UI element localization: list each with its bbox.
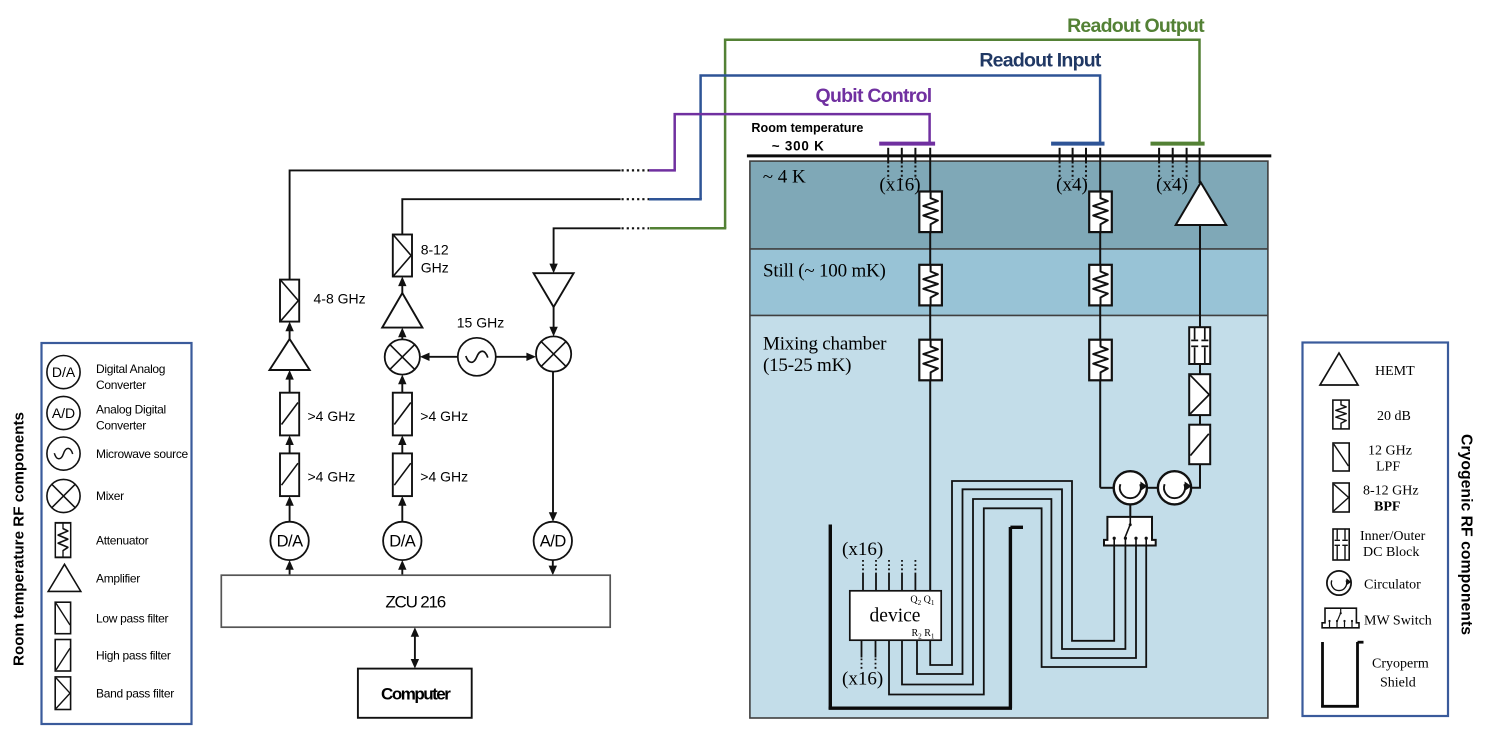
wire+arrow: mixer M1 to amplifier A2 xyxy=(398,328,406,340)
svg-text:Room temperature RF components: Room temperature RF components xyxy=(11,412,28,666)
svg-text:Converter: Converter xyxy=(96,419,146,433)
svg-text:12 GHz: 12 GHz xyxy=(1368,444,1412,459)
qubit feedthrough tick 1 xyxy=(887,148,889,180)
wire+arrow: ZCU to DAC2 xyxy=(398,560,406,575)
device input stub 4 xyxy=(901,560,903,591)
wire+arrow: FL2 to amplifier A1 xyxy=(285,370,293,393)
dashed joint qubit line xyxy=(622,169,650,171)
legend microwave source symbol xyxy=(47,437,80,470)
right legend box xyxy=(1303,343,1449,717)
legend low pass filter symbol xyxy=(55,602,70,634)
svg-text:Amplifier: Amplifier xyxy=(96,572,140,586)
svg-text:>4 GHz: >4 GHz xyxy=(308,408,356,424)
device input stub 5 (Q2) xyxy=(914,560,916,591)
svg-text:A/D: A/D xyxy=(52,405,75,421)
svg-text:LPF: LPF xyxy=(1376,460,1400,475)
Computer box xyxy=(358,669,472,718)
readout output feedthrough tick 2 xyxy=(1172,148,1174,180)
qubit control feedthrough bar xyxy=(879,142,935,146)
readout meander wire C (to switch pin 3) xyxy=(902,499,1136,685)
device input stub 1 xyxy=(862,560,864,591)
wire: LPF down and left to circulator C2 xyxy=(1191,464,1200,488)
readout meander wire D (to switch pin 4) xyxy=(889,508,1146,694)
cryostat 4 K band xyxy=(750,161,1268,249)
svg-text:8-12: 8-12 xyxy=(421,242,449,258)
MW switch S1 xyxy=(1104,517,1156,546)
svg-text:Digital Analog: Digital Analog xyxy=(96,362,165,376)
svg-text:(x16): (x16) xyxy=(879,174,920,195)
svg-text:>4 GHz: >4 GHz xyxy=(420,469,468,485)
inner/outer DC block DB1 xyxy=(1189,327,1210,364)
boundary line Still / Mixing chamber xyxy=(750,314,1268,316)
svg-text:High pass filter: High pass filter xyxy=(96,649,171,663)
qubit feedthrough tick 2 xyxy=(901,148,903,180)
band pass filter FL1 4-8 GHz xyxy=(280,280,299,322)
wire+arrow: A3 to mixer M2 xyxy=(549,307,557,336)
svg-text:4-8 GHz: 4-8 GHz xyxy=(314,291,366,307)
wire: HEMT to DC block xyxy=(1199,225,1201,327)
legend amplifier symbol xyxy=(48,564,81,591)
left legend box xyxy=(42,343,192,724)
amplifier A2 xyxy=(382,293,422,328)
svg-text:D/A: D/A xyxy=(277,533,304,551)
microwave source OSC1 xyxy=(458,338,496,376)
wire+arrow: ADC down to ZCU xyxy=(549,560,557,575)
readout input feedthrough tick 1 xyxy=(1059,148,1061,180)
svg-text:Shield: Shield xyxy=(1380,676,1416,691)
legend MW switch symbol xyxy=(1322,608,1359,628)
wire: readout-out chain room-temp black segment xyxy=(554,228,621,268)
wire+arrow: DAC1 to FL3 xyxy=(285,496,293,522)
cryoperm shield around device xyxy=(829,525,1023,710)
attenuator AT3 qubit mixing chamber xyxy=(919,340,942,381)
ZCU 216 box xyxy=(221,575,610,627)
wire: readout input blue stub xyxy=(649,198,702,201)
svg-text:MW Switch: MW Switch xyxy=(1364,614,1432,629)
device input stub 2 xyxy=(875,560,877,591)
svg-text:8-12 GHz: 8-12 GHz xyxy=(1363,484,1419,499)
room temperature boundary line ~300K xyxy=(747,154,1271,157)
svg-text:Readout Output: Readout Output xyxy=(1067,15,1205,37)
svg-text:(x16): (x16) xyxy=(842,539,883,560)
legend HEMT symbol xyxy=(1320,353,1358,385)
dashed joint readout-out line xyxy=(622,227,650,229)
svg-text:15 GHz: 15 GHz xyxy=(457,315,504,331)
svg-text:Cryogenic RF components: Cryogenic RF components xyxy=(1458,434,1475,635)
circulator C2 xyxy=(1158,471,1192,504)
legend DAC symbol xyxy=(47,356,80,389)
amplifier A3 (pointing down) xyxy=(534,273,574,307)
legend ADC symbol xyxy=(47,396,80,429)
wire+arrow: FL8 to FL7 xyxy=(398,435,406,453)
svg-text:Microwave source: Microwave source xyxy=(96,447,189,461)
svg-text:Attenuator: Attenuator xyxy=(96,534,149,548)
attenuator AT1 qubit 4K xyxy=(919,192,942,233)
wire+arrow: DAC2 to FL8 xyxy=(398,496,406,522)
svg-text:(x16): (x16) xyxy=(842,669,883,690)
wire: readout input to circulator C1 xyxy=(1100,487,1114,489)
device input stub 3 xyxy=(888,560,890,591)
readout output feedthrough bar xyxy=(1151,142,1205,146)
high pass filter FL8 >4 GHz xyxy=(393,453,412,496)
svg-text:Low pass filter: Low pass filter xyxy=(96,611,169,625)
wire+arrow: down into amplifier A3 xyxy=(549,264,557,274)
wire: DC block to BPF xyxy=(1199,364,1201,374)
wire: qubit control purple trunk xyxy=(675,114,930,170)
attenuator AT4 readout-in 4K xyxy=(1089,192,1112,233)
svg-text:Room temperature: Room temperature xyxy=(751,121,863,135)
svg-text:Still (~ 100 mK): Still (~ 100 mK) xyxy=(763,260,886,281)
svg-text:ZCU 216: ZCU 216 xyxy=(385,592,445,611)
band pass filter FL5 8-12 GHz cryo xyxy=(1189,374,1210,415)
svg-text:Mixing chamber: Mixing chamber xyxy=(763,334,887,355)
svg-text:Cryoperm: Cryoperm xyxy=(1372,657,1429,672)
wire+arrow: mixer M1 from FL7 xyxy=(398,375,406,393)
svg-text:A/D: A/D xyxy=(540,533,567,551)
DAC U4 D/A circle (middle) xyxy=(383,522,421,560)
cryostat still band (~100 mK) xyxy=(750,249,1268,316)
wire+arrow: ZCU to DAC1 xyxy=(285,560,293,575)
mixer M1 xyxy=(385,339,420,374)
legend cryoperm shield symbol xyxy=(1321,642,1363,708)
svg-text:BPF: BPF xyxy=(1374,500,1400,515)
legend band pass filter symbol xyxy=(55,677,70,710)
attenuator AT2 qubit Still xyxy=(919,265,942,306)
svg-text:DC Block: DC Block xyxy=(1363,545,1419,560)
svg-text:Readout Input: Readout Input xyxy=(979,50,1102,72)
wire: readout input blue trunk xyxy=(701,76,1101,200)
legend cryo LPF symbol xyxy=(1333,443,1349,471)
readout input feedthrough bar xyxy=(1051,142,1104,146)
device output stub 2 xyxy=(875,640,877,669)
device output stub 1 xyxy=(861,640,863,669)
readout output feedthrough tick 3 xyxy=(1186,148,1188,180)
legend mixer symbol xyxy=(47,479,80,512)
amplifier A1 xyxy=(270,339,310,370)
cryostat outer border xyxy=(750,161,1268,718)
svg-text:HEMT: HEMT xyxy=(1375,364,1415,379)
readout meander wire B (R2 to switch pin 2) xyxy=(917,489,1125,674)
wire: qubit chain room-temp black segment xyxy=(290,170,621,279)
wire: qubit control purple stub xyxy=(649,169,676,172)
wire+arrow: source to mixer M1 xyxy=(420,353,458,361)
wire+arrow: amplifier A2 to FL4 xyxy=(398,277,406,294)
svg-text:Computer: Computer xyxy=(381,685,451,704)
wire: circulator C1 down to MW switch xyxy=(1129,504,1131,518)
low pass filter FL6 12 GHz cryo xyxy=(1189,425,1210,465)
svg-text:~ 4 K: ~ 4 K xyxy=(763,167,806,188)
svg-text:(x4): (x4) xyxy=(1056,174,1088,195)
mixer M2 xyxy=(536,336,571,371)
wire: readout output green stub to A/D chain xyxy=(650,227,727,230)
high pass filter FL3 >4 GHz xyxy=(280,453,299,496)
wire: qubit line down through 4K/Still/MC xyxy=(929,148,931,591)
legend high pass filter symbol xyxy=(55,640,70,672)
qubit feedthrough tick 3 xyxy=(914,148,916,180)
band pass filter FL4 8-12 GHz xyxy=(393,235,412,277)
DAC U3 D/A circle (left) xyxy=(270,522,308,560)
wire: readout input line down xyxy=(1099,148,1101,488)
wire+arrow: source to mixer M2 xyxy=(496,353,536,361)
svg-text:Inner/Outer: Inner/Outer xyxy=(1360,529,1426,544)
attenuator AT5 readout-in Still xyxy=(1089,265,1112,306)
cryostat mixing chamber band (15-25 mK) xyxy=(750,315,1268,718)
HEMT amplifier U2 xyxy=(1176,183,1227,226)
svg-text:D/A: D/A xyxy=(389,533,416,551)
svg-text:>4 GHz: >4 GHz xyxy=(420,408,468,424)
svg-text:D/A: D/A xyxy=(52,364,76,380)
wire: BPF to LPF xyxy=(1199,415,1201,425)
svg-text:GHz: GHz xyxy=(421,260,449,276)
ADC U5 A/D circle xyxy=(534,522,572,560)
legend 20dB attenuator symbol xyxy=(1333,400,1349,429)
svg-text:Circulator: Circulator xyxy=(1364,578,1421,593)
svg-text:Band pass filter: Band pass filter xyxy=(96,687,174,701)
legend cryo BPF symbol xyxy=(1333,483,1349,512)
wire+arrow: mixer M2 down to ADC xyxy=(549,372,557,522)
high pass filter FL2 >4 GHz xyxy=(280,393,299,436)
high pass filter FL7 >4 GHz xyxy=(393,393,412,436)
wire: between circulators xyxy=(1147,487,1158,489)
wire: ZCU-Computer double arrow xyxy=(411,627,419,668)
wire+arrow: amplifier A1 to FL1 xyxy=(285,322,293,339)
readout output feedthrough tick 1 xyxy=(1158,148,1160,180)
svg-text:Mixer: Mixer xyxy=(96,489,124,503)
svg-text:~ 300 K: ~ 300 K xyxy=(772,138,825,153)
svg-text:>4 GHz: >4 GHz xyxy=(308,469,356,485)
wire+arrow: FL3 to FL2 xyxy=(285,435,293,453)
legend circulator symbol xyxy=(1327,571,1352,595)
boundary line 4K / Still xyxy=(750,248,1268,250)
svg-text:(15-25 mK): (15-25 mK) xyxy=(763,355,851,376)
svg-text:20 dB: 20 dB xyxy=(1377,409,1411,424)
svg-text:(x4): (x4) xyxy=(1156,174,1188,195)
circulator C1 xyxy=(1114,471,1148,504)
svg-text:device: device xyxy=(870,606,921,627)
attenuator AT6 readout-in mixing chamber xyxy=(1089,340,1112,381)
svg-text:Qubit Control: Qubit Control xyxy=(816,85,932,107)
wire: readout output green trunk xyxy=(725,40,1199,228)
readout input feedthrough tick 3 xyxy=(1085,148,1087,180)
svg-text:Analog Digital: Analog Digital xyxy=(96,402,166,416)
device box xyxy=(850,591,941,640)
wire: readout output line down to HEMT xyxy=(1199,148,1201,183)
svg-text:Converter: Converter xyxy=(96,378,146,392)
wire: readout-in chain room-temp black segment xyxy=(402,199,620,234)
readout meander wire A (R1 to switch pin 1) xyxy=(930,481,1114,665)
legend DC block symbol xyxy=(1333,529,1349,560)
dashed joint readout-in line xyxy=(622,198,650,200)
legend attenuator symbol xyxy=(55,523,70,558)
readout input feedthrough tick 2 xyxy=(1072,148,1074,180)
